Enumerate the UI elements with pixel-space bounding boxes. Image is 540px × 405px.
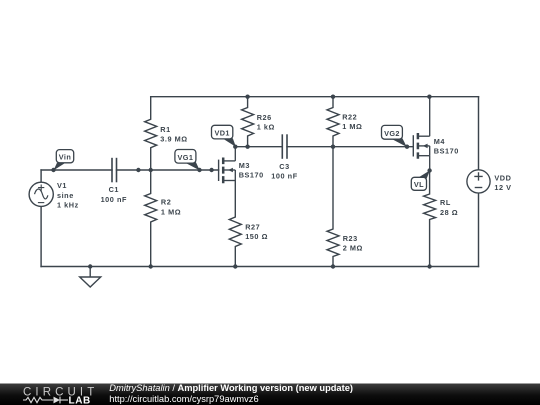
svg-text:R26: R26 [257,113,272,122]
svg-text:1 kHz: 1 kHz [57,201,79,210]
svg-text:R27: R27 [245,222,260,231]
resistor R26 [242,97,254,147]
svg-text:100 nF: 100 nF [101,195,127,204]
ground [80,267,101,288]
svg-text:R23: R23 [343,234,358,243]
wire input segment C1 to M3 gate [117,169,219,171]
wire input segment V1 to C1 [41,169,112,171]
resistor RL [424,171,436,267]
svg-text:28 Ω: 28 Ω [440,208,458,217]
node VD1 flag [212,125,236,147]
svg-text:M4: M4 [434,137,446,146]
resistor R2 [145,170,157,267]
node VG1 flag [175,150,200,171]
svg-text:RL: RL [440,198,451,207]
svg-text:1 MΩ: 1 MΩ [161,207,181,216]
capacitor C3 [282,134,287,159]
svg-text:BS170: BS170 [239,171,264,180]
resistor R27 [229,181,241,267]
node Vin flag [54,150,74,171]
svg-text:12 V: 12 V [494,183,511,192]
svg-text:R2: R2 [161,198,171,207]
svg-text:VG2: VG2 [384,129,400,138]
wire VDD column bottom [478,193,480,267]
node VG2 flag [382,125,407,146]
resistor R22 [327,97,339,147]
wire V1 bottom lead [40,206,42,266]
svg-text:C1: C1 [109,185,119,194]
svg-text:BS170: BS170 [434,147,459,156]
wire V1 top lead [40,170,42,182]
logo resistor-diode glyph [23,397,68,404]
svg-text:VG1: VG1 [177,153,193,162]
capacitor C1 [112,158,117,183]
svg-text:2 MΩ: 2 MΩ [343,244,363,253]
source VDD [467,170,490,193]
svg-text:150 Ω: 150 Ω [245,232,268,241]
wire mid rail C3 to M4 gate [287,146,413,148]
source V1 [29,182,53,206]
svg-text:100 nF: 100 nF [271,171,297,180]
svg-text:1 kΩ: 1 kΩ [257,123,275,132]
svg-text:R1: R1 [160,125,170,134]
wire top rail [151,96,479,98]
wire bottom rail [41,266,478,268]
svg-text:C3: C3 [279,162,289,171]
svg-text:LAB: LAB [69,395,91,405]
wire mid rail M3 drain to C3 [235,146,282,148]
svg-text:1 MΩ: 1 MΩ [342,122,362,131]
svg-text:sine: sine [57,191,74,200]
resistor R1 [145,97,157,170]
resistor R23 [327,147,339,267]
svg-text:Vin: Vin [59,153,71,162]
svg-text:V1: V1 [57,181,67,190]
svg-text:M3: M3 [239,161,250,170]
svg-text:VDD: VDD [494,174,511,183]
footer bar [0,384,540,405]
svg-text:3.9 MΩ: 3.9 MΩ [160,135,187,144]
svg-text:VD1: VD1 [214,129,229,138]
svg-text:R22: R22 [342,113,357,122]
svg-text:http://circuitlab.com/cysrp79a: http://circuitlab.com/cysrp79awmvz6 [109,394,258,404]
node VL flag [411,170,430,190]
svg-text:VL: VL [414,180,424,189]
transistor M3 [219,147,236,184]
transistor M4 [413,97,429,171]
svg-text:DmitryShatalin / Amplifier Wor: DmitryShatalin / Amplifier Working versi… [109,383,353,393]
wire VDD column top [478,97,480,170]
